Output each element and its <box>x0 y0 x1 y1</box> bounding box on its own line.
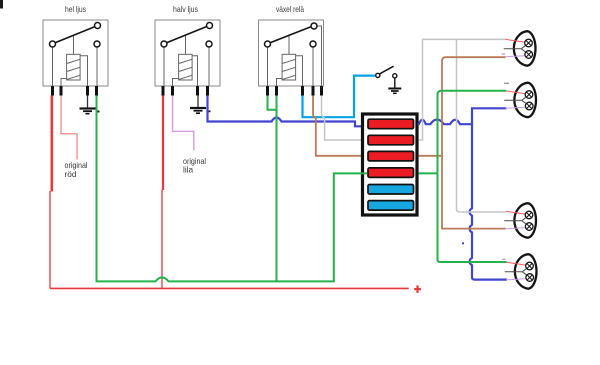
relay K3 coil terminal wire (left) <box>277 79 283 87</box>
wire: blue from K2 pin 87a to fuse F1 left <box>208 96 368 127</box>
relay K3 coil terminal wire (right) <box>296 56 303 86</box>
label "hel ljus" relay K1 <box>65 4 86 14</box>
fuse F4 (red) <box>368 168 414 178</box>
stray dot artifact right of K2 ground <box>208 110 211 112</box>
fuse box body <box>363 114 418 215</box>
relay K2 internal wire: NC pin down <box>208 46 210 86</box>
relay K2 internal wire: common pin down <box>163 46 165 86</box>
relay K3 internal wire: NC pin down <box>312 46 314 86</box>
wire: green bus from K1 to fuse F4 <box>97 173 368 281</box>
label "växel relä" relay K3 <box>276 4 304 14</box>
fuse F1 (red) <box>368 119 414 129</box>
label "original lila" <box>183 156 206 175</box>
switch S1 contact circle (left) <box>376 73 380 77</box>
ground symbol under relay K2 <box>190 96 206 114</box>
relay K3 pin circle (right) <box>310 41 316 47</box>
relay K1 box <box>43 20 108 86</box>
relay K1 coil terminal wire (left) <box>61 79 67 87</box>
relay K1 pin circle (common) <box>50 41 56 47</box>
label "original röd" <box>65 160 88 179</box>
relay K3 internal wire: NO pin to right edge down <box>317 26 322 86</box>
svg-text:växel relä: växel relä <box>276 4 304 14</box>
relay K3 internal wire: common pin down <box>267 46 269 86</box>
relay K3 coil <box>282 54 296 80</box>
switch S1 arm <box>380 66 394 74</box>
wire: brown branch down to lamp LP3 <box>442 156 506 229</box>
wire: green from fuse F4 right to lamps LP2/LP4 <box>419 91 507 174</box>
wire: gray from K3 NO pin to fuse F2 left <box>322 96 368 141</box>
relay K1 pin circle (top right) <box>95 23 101 29</box>
relay K1 coil terminal wire (right) <box>80 56 87 86</box>
relay K3 terminal stubs <box>268 86 322 96</box>
relay K2 box <box>155 20 220 86</box>
relay K1 pin circle (right) <box>94 41 100 47</box>
small violet dash artifact left of lamp LP1 <box>502 53 506 54</box>
wire: blue branch down to lamp LP4 <box>470 124 507 279</box>
wire: cyan from K3 coil right to switch S1 <box>303 76 376 118</box>
wire: green from K3 coil down to green bus <box>276 96 278 282</box>
wire: pink "original röd" from K1 coil <box>61 96 77 160</box>
ground symbol at switch S1 <box>388 78 401 93</box>
relay K3 box <box>259 20 324 86</box>
ground symbol under relay K1 <box>80 96 96 114</box>
relay K1 armature link <box>73 35 75 55</box>
svg-text:hel ljus: hel ljus <box>65 4 86 14</box>
wire: brown from K3 pin 87a to fuse F3 left <box>313 96 367 156</box>
small blue dot artifact left of blue wire <box>462 242 464 244</box>
lamp LP3 <box>504 203 536 238</box>
fuse F5 (blue) <box>368 185 414 195</box>
switch S1 contact circle (right) <box>393 74 397 78</box>
relay K1 terminal stubs <box>53 86 97 96</box>
relay K1 switch arm <box>55 27 95 43</box>
wire: green branch down to lamp LP4 <box>438 173 507 262</box>
stray dot artifact right of K1 ground <box>97 111 100 113</box>
relay K1 coil <box>67 54 81 80</box>
fuse F6 (blue) <box>368 201 414 211</box>
small dash artifact above lamp LP2 <box>504 83 509 84</box>
relay K3 switch arm <box>270 27 311 43</box>
label "halv ljus" relay K2 <box>173 4 198 14</box>
fuse F2 (red) <box>368 135 414 145</box>
wire: green from K3 common pin to coil green <box>268 96 277 110</box>
relay K3 armature link <box>288 35 290 55</box>
relay K2 armature link <box>185 35 187 55</box>
relay K2 pin circle (right) <box>206 41 212 47</box>
svg-text:halv ljus: halv ljus <box>173 4 198 14</box>
lamp LP4 (bottom right) <box>505 254 537 289</box>
lamp LP1 (top right) <box>504 31 536 65</box>
wire: gray branch down to lamp LP3 <box>457 39 506 212</box>
svg-text:röd: röd <box>65 169 77 179</box>
wire: red from K1 pin 30 down to + bus <box>50 96 52 289</box>
wire: blue from fuse F1 right to lamps LP2/LP4 <box>418 108 507 124</box>
wire: red + bus at bottom <box>50 287 409 289</box>
relay K2 coil terminal wire (left) <box>173 79 179 87</box>
relay K2 pin circle (common) <box>161 41 167 47</box>
wire: brown from fuse F3 right to lamps LP1/LP3 <box>419 57 506 156</box>
relay K1 internal wire: NC pin down <box>96 46 98 86</box>
wire: violet "original lila" from K2 coil <box>173 96 194 151</box>
fuse F3 (red) <box>368 151 414 161</box>
wire: gray from fuse F2 right up to lamp LP1 <box>419 39 506 140</box>
wire: green from K1 pin 87a down to green bus <box>96 96 98 282</box>
screenshot artifact top-left corner <box>0 0 3 9</box>
small violet dash artifact left of lamp LP4 <box>502 259 506 260</box>
relay K1 internal wire: common pin down <box>52 46 54 86</box>
wire: red from K2 pin 30 down to + bus <box>162 96 163 289</box>
relay K3 pin circle (top right) <box>311 23 317 29</box>
label red + (positive terminal) <box>414 285 421 293</box>
relay K2 pin circle (top right) <box>207 23 213 29</box>
lamp LP2 <box>504 83 536 118</box>
relay K3 pin circle (common) <box>265 41 271 47</box>
relay K2 coil <box>179 54 193 80</box>
relay K2 switch arm <box>166 27 206 43</box>
svg-text:lila: lila <box>183 165 194 175</box>
relay K2 terminal stubs <box>163 86 208 96</box>
relay K2 coil terminal wire (right) <box>192 56 197 86</box>
